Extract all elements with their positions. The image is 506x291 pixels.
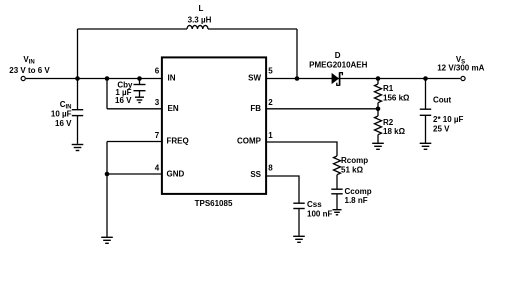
op-amp U1 TPS61085 IC body — [162, 57, 266, 194]
wire EN branch vertical — [106, 79, 108, 109]
svg-text:COMP: COMP — [237, 137, 262, 146]
svg-text:PMEG2010AEH: PMEG2010AEH — [309, 61, 367, 70]
ground below Cby — [135, 97, 144, 102]
capacitor CIN — [72, 79, 83, 144]
wire EN branch horizontal — [107, 108, 163, 110]
ground below CIN — [72, 145, 84, 151]
svg-text:1.8 nF: 1.8 nF — [345, 196, 368, 205]
svg-text:100 nF: 100 nF — [307, 209, 332, 218]
junction dot output node R1 — [376, 76, 381, 81]
wire vertical down to SW rail — [296, 29, 298, 79]
svg-text:16 V: 16 V — [55, 119, 72, 128]
ground below Ccomp — [333, 210, 342, 215]
svg-text:6: 6 — [155, 67, 160, 76]
svg-text:8: 8 — [268, 163, 273, 172]
junction dot FB node — [376, 107, 381, 112]
capacitor Css — [293, 203, 304, 236]
svg-text:SW: SW — [248, 74, 261, 83]
junction dot output node Cout — [423, 76, 428, 81]
svg-text:7: 7 — [155, 131, 160, 140]
wire top horizontal left of inductor — [78, 28, 188, 30]
svg-text:4: 4 — [155, 163, 160, 172]
svg-text:3: 3 — [155, 98, 160, 107]
svg-text:18 kΩ: 18 kΩ — [383, 127, 406, 136]
junction dot rail at x107 — [105, 76, 110, 81]
wire COMP branch — [265, 142, 337, 156]
junction dot rail at x77 — [75, 76, 80, 81]
svg-text:FREQ: FREQ — [167, 137, 189, 146]
resistor R1 — [375, 79, 382, 109]
svg-text:L: L — [199, 4, 204, 13]
capacitor Ccomp — [331, 189, 342, 209]
svg-text:SS: SS — [250, 170, 261, 179]
svg-text:10 µF: 10 µF — [51, 109, 72, 118]
wire GND branch horizontal — [107, 173, 163, 175]
svg-text:R1: R1 — [383, 84, 394, 93]
wire vertical up from rail to top — [77, 29, 79, 79]
diode D PMEG2010AEH — [332, 72, 343, 85]
svg-text:3.3 µH: 3.3 µH — [188, 16, 212, 25]
svg-text:23 V to 6 V: 23 V to 6 V — [9, 66, 50, 75]
svg-text:1: 1 — [268, 131, 273, 140]
svg-text:FB: FB — [250, 104, 261, 113]
ground below Css — [293, 236, 305, 242]
node VIN input terminal — [21, 76, 25, 80]
svg-text:5: 5 — [268, 67, 273, 76]
junction dot rail at x139 — [137, 76, 142, 81]
wire SW output rail — [265, 78, 460, 80]
ground left branch — [101, 237, 113, 243]
capacitor Cby — [134, 79, 146, 97]
inductor L 3.3uH — [187, 25, 208, 29]
wire top horizontal right of inductor — [208, 28, 297, 30]
svg-text:TPS61085: TPS61085 — [195, 199, 233, 208]
svg-text:Css: Css — [307, 200, 322, 209]
svg-text:16 V: 16 V — [115, 96, 132, 105]
wire SS branch — [265, 176, 299, 203]
junction dot GND branch — [105, 172, 110, 177]
resistor R2 — [375, 109, 382, 143]
junction dot SW node — [295, 76, 300, 81]
svg-text:2: 2 — [268, 98, 273, 107]
wire FB to divider — [265, 108, 378, 110]
svg-text:2* 10 µF: 2* 10 µF — [433, 115, 464, 124]
svg-text:IN: IN — [168, 74, 176, 83]
svg-text:25 V: 25 V — [433, 124, 450, 133]
wire VIN rail to IN pin — [26, 78, 163, 80]
svg-text:D: D — [335, 51, 341, 60]
ground below Cout — [420, 143, 432, 149]
wire FREQ branch horizontal — [107, 141, 163, 143]
svg-text:51 kΩ: 51 kΩ — [341, 166, 364, 175]
svg-text:Ccomp: Ccomp — [345, 187, 372, 196]
node VS output terminal — [461, 76, 465, 80]
svg-text:R2: R2 — [383, 118, 394, 127]
capacitor Cout — [420, 79, 431, 143]
wire left vertical FREQ/GND down — [106, 142, 108, 237]
resistor Rcomp — [334, 156, 341, 189]
svg-text:GND: GND — [167, 170, 185, 179]
svg-text:Rcomp: Rcomp — [341, 156, 368, 165]
svg-text:Cout: Cout — [433, 95, 452, 104]
ground below R2 — [372, 143, 384, 149]
svg-text:EN: EN — [168, 104, 179, 113]
svg-text:156 kΩ: 156 kΩ — [383, 93, 410, 102]
svg-text:12 V/300 mA: 12 V/300 mA — [437, 64, 484, 73]
